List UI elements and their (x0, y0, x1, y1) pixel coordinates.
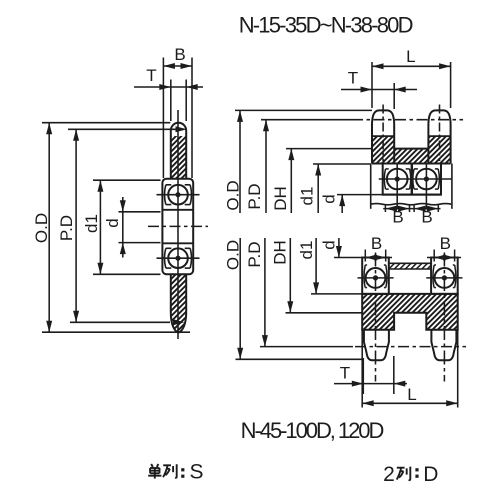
svg-text:N-15-35D~N-38-80D: N-15-35D~N-38-80D (239, 13, 413, 38)
svg-text:d: d (319, 240, 338, 249)
svg-text:d: d (103, 218, 122, 227)
svg-text:d1: d1 (297, 187, 316, 206)
svg-text:B: B (421, 208, 432, 227)
svg-text:N-45-100D, 120D: N-45-100D, 120D (241, 418, 384, 443)
svg-text:DH: DH (271, 186, 290, 211)
svg-text:d: d (320, 194, 339, 203)
svg-text:L: L (407, 385, 416, 404)
svg-text:B: B (174, 45, 185, 64)
svg-text:B: B (371, 234, 382, 253)
svg-text:d1: d1 (82, 214, 101, 233)
svg-text:DH: DH (271, 240, 290, 265)
svg-text:T: T (348, 69, 358, 88)
svg-text:T: T (146, 66, 156, 85)
svg-text:S: S (189, 460, 203, 483)
svg-text:P.D: P.D (57, 215, 76, 241)
svg-text:B: B (440, 234, 451, 253)
svg-text:D: D (423, 463, 438, 486)
svg-text:B: B (392, 208, 403, 227)
svg-text:d1: d1 (297, 241, 316, 260)
svg-text:O.D: O.D (224, 240, 243, 270)
svg-text:O.D: O.D (32, 213, 51, 243)
svg-text:O.D: O.D (223, 180, 242, 210)
svg-text:T: T (340, 364, 350, 383)
svg-text:P.D: P.D (245, 183, 264, 209)
svg-text:P.D: P.D (245, 241, 264, 267)
svg-text:2: 2 (383, 463, 395, 486)
svg-text:L: L (406, 47, 415, 66)
